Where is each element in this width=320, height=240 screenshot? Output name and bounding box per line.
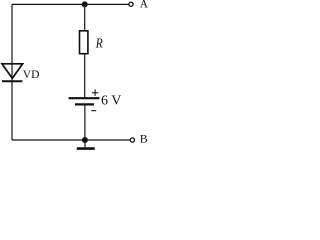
battery negative plate — [75, 103, 94, 105]
wire left vertical — [11, 4, 13, 140]
svg-text:B: B — [140, 132, 148, 146]
svg-text:VD: VD — [23, 68, 40, 81]
svg-text:A: A — [140, 0, 149, 11]
diode VD — [2, 64, 23, 81]
node bottom junction — [82, 137, 88, 143]
battery positive plate — [69, 97, 100, 99]
wire bottom horizontal — [12, 139, 130, 141]
svg-text:6 V: 6 V — [101, 94, 121, 109]
wire top horizontal — [12, 3, 129, 5]
wire resistor branch: node to resistor — [84, 4, 86, 31]
ground — [77, 140, 95, 149]
battery minus sign — [91, 110, 96, 112]
battery plus sign — [92, 89, 98, 96]
terminal B — [130, 138, 134, 142]
wire battery to bottom node — [84, 105, 86, 140]
svg-text:R: R — [95, 36, 103, 51]
node top junction — [82, 1, 88, 7]
wire resistor to battery — [84, 54, 86, 98]
terminal A — [129, 2, 133, 6]
resistor R — [80, 31, 88, 54]
